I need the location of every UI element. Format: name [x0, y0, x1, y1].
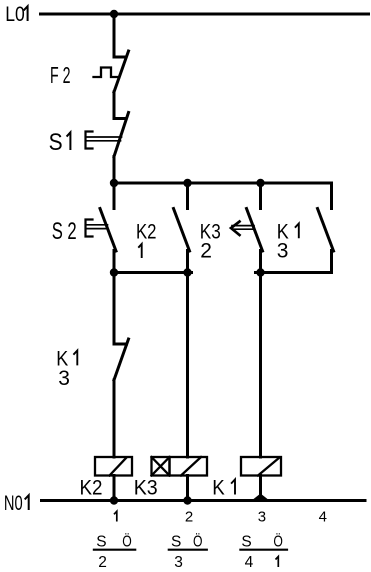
terminal number 1 [114, 511, 117, 521]
svg-text:K: K [212, 477, 225, 500]
coil K2 [95, 457, 132, 476]
wire coil K3 to N01 [186, 476, 189, 501]
svg-text:K2: K2 [80, 477, 103, 500]
wire coil K2 to N01 [113, 476, 116, 501]
contact K1 NO [318, 183, 334, 273]
svg-text:S: S [49, 129, 63, 156]
svg-text:Ö: Ö [273, 533, 283, 551]
svg-text:4: 4 [245, 554, 254, 571]
wire S1 down to control bus [113, 157, 116, 184]
wire top rail L01 [41, 13, 369, 16]
svg-text:K3: K3 [134, 477, 158, 500]
wire F2 to S1 [113, 92, 116, 119]
thermal overload contact F2 [94, 51, 129, 92]
wire from L01 rail down to F2 [113, 14, 116, 57]
contact cross reference K3 rule [169, 549, 207, 551]
contact cross reference K1 rule [240, 549, 287, 551]
junction dot N01 col2 [183, 496, 191, 504]
junction dot bus col2 [183, 179, 191, 187]
svg-text:S 2: S 2 [52, 218, 77, 245]
contact cross reference K1 entry 1 [276, 557, 279, 568]
svg-text:K2: K2 [136, 220, 157, 243]
svg-text:3: 3 [174, 554, 183, 571]
coil K1 [241, 457, 281, 476]
contact K1 NC (aux 3) [114, 339, 129, 380]
junction dot N01 col1 [110, 496, 118, 504]
junction dot lower bus col1 [110, 268, 118, 276]
label 1 [138, 244, 141, 258]
coil K3 aux element [152, 457, 170, 476]
svg-text:S: S [171, 534, 181, 551]
contact K2 NO [174, 183, 190, 273]
svg-text:2: 2 [185, 509, 193, 526]
wire col3 down to coil K1 [259, 273, 262, 458]
coil K3 [170, 457, 208, 476]
wire lower bus right segment [256, 271, 332, 274]
junction dot bus col3 [256, 179, 264, 187]
svg-text:N0: N0 [4, 492, 23, 515]
contact K3 NO with actuation arrow [231, 183, 263, 273]
wire bottom rail N01 [42, 499, 366, 502]
wire K1 aux contact to coil K2 [113, 380, 116, 457]
wire lower bus down to K1 aux contact [113, 273, 116, 345]
svg-text:3: 3 [258, 509, 266, 526]
junction dot lower bus col3 [256, 268, 264, 276]
svg-text:S: S [96, 534, 106, 551]
junction dot node 1 on control bus [110, 179, 118, 187]
svg-text:2: 2 [98, 554, 107, 571]
svg-text:F 2: F 2 [50, 62, 71, 88]
wire coil K1 to N01 [259, 476, 262, 501]
svg-text:4: 4 [319, 509, 327, 526]
svg-text:3: 3 [277, 240, 289, 263]
junction dot lower bus col2 [183, 268, 191, 276]
wire control bus [114, 182, 332, 185]
wire lower bus left segment [114, 271, 192, 274]
svg-text:L0: L0 [5, 3, 25, 26]
contact cross reference K2 rule [94, 549, 135, 551]
pushbutton S1 NC contact [86, 113, 129, 157]
svg-text:Ö: Ö [193, 533, 203, 551]
wire col2 down to coil K3 [186, 273, 189, 458]
svg-text:2: 2 [200, 240, 212, 263]
svg-text:S: S [241, 534, 251, 551]
pushbutton S2 NO contact [86, 183, 117, 273]
svg-text:3: 3 [58, 367, 70, 390]
svg-text:Ö: Ö [122, 533, 132, 551]
junction dot on L01 rail [110, 10, 118, 18]
junction triangle N01 col3 [254, 494, 268, 500]
